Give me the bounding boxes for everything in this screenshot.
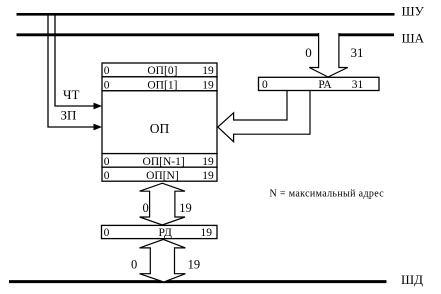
bus ШД (data bus line): [9, 280, 387, 283]
register РА box: [259, 77, 380, 90]
svg-text:19: 19: [202, 65, 214, 77]
svg-text:19: 19: [179, 201, 192, 215]
block arrow from ША down to РА: [309, 33, 347, 77]
double hollow arrow РД to ШД: [140, 239, 186, 282]
svg-text:0: 0: [104, 79, 110, 91]
elbow hollow arrow from РА to ОП: [218, 91, 310, 142]
svg-text:0: 0: [142, 201, 148, 215]
svg-text:ОП[1]: ОП[1]: [147, 79, 177, 91]
double hollow arrow ОП[N] to РД: [140, 183, 185, 225]
svg-text:19: 19: [202, 170, 214, 182]
wire ЧТ (read signal from ШУ to ОП): [55, 14, 96, 107]
svg-text:0: 0: [104, 170, 110, 182]
block ОП row ОП[N-1]: [102, 154, 217, 168]
svg-text:ШУ: ШУ: [402, 4, 425, 19]
svg-text:ШД: ШД: [401, 272, 423, 287]
svg-text:0: 0: [104, 156, 110, 168]
svg-text:0: 0: [131, 257, 137, 271]
svg-text:ОП: ОП: [150, 121, 170, 136]
bus ШУ (control bus line): [17, 13, 395, 16]
svg-text:ЗП: ЗП: [61, 108, 77, 123]
svg-text:РД: РД: [159, 227, 173, 239]
svg-text:19: 19: [202, 79, 214, 91]
svg-text:ША: ША: [402, 30, 425, 45]
svg-text:0: 0: [104, 65, 110, 77]
svg-text:РА: РА: [318, 79, 332, 91]
svg-text:19: 19: [202, 156, 214, 168]
svg-text:31: 31: [352, 79, 364, 91]
svg-text:ЧТ: ЧТ: [63, 87, 79, 102]
svg-text:19: 19: [201, 227, 213, 239]
svg-text:31: 31: [351, 45, 364, 60]
block ОП row ОП[0]: [102, 63, 217, 77]
svg-text:ОП[N]: ОП[N]: [146, 170, 179, 182]
svg-text:ОП[0]: ОП[0]: [147, 65, 177, 77]
block ОП row ОП[1]: [102, 77, 217, 91]
svg-text:0: 0: [104, 227, 110, 239]
arrowhead ЗП: [94, 124, 103, 131]
svg-text:0: 0: [305, 45, 312, 60]
block ОП body: [102, 91, 217, 154]
svg-text:19: 19: [188, 257, 201, 271]
wire ЗП (write signal from ШУ to ОП): [48, 14, 96, 128]
bus ША (address bus line): [17, 33, 395, 36]
svg-text:N = максимальный адрес: N = максимальный адрес: [270, 188, 385, 199]
svg-text:0: 0: [262, 79, 268, 91]
svg-text:ОП[N-1]: ОП[N-1]: [143, 156, 185, 168]
register РД box: [102, 225, 218, 238]
arrowhead ЧТ: [94, 103, 103, 110]
block ОП row ОП[N]: [102, 167, 217, 181]
